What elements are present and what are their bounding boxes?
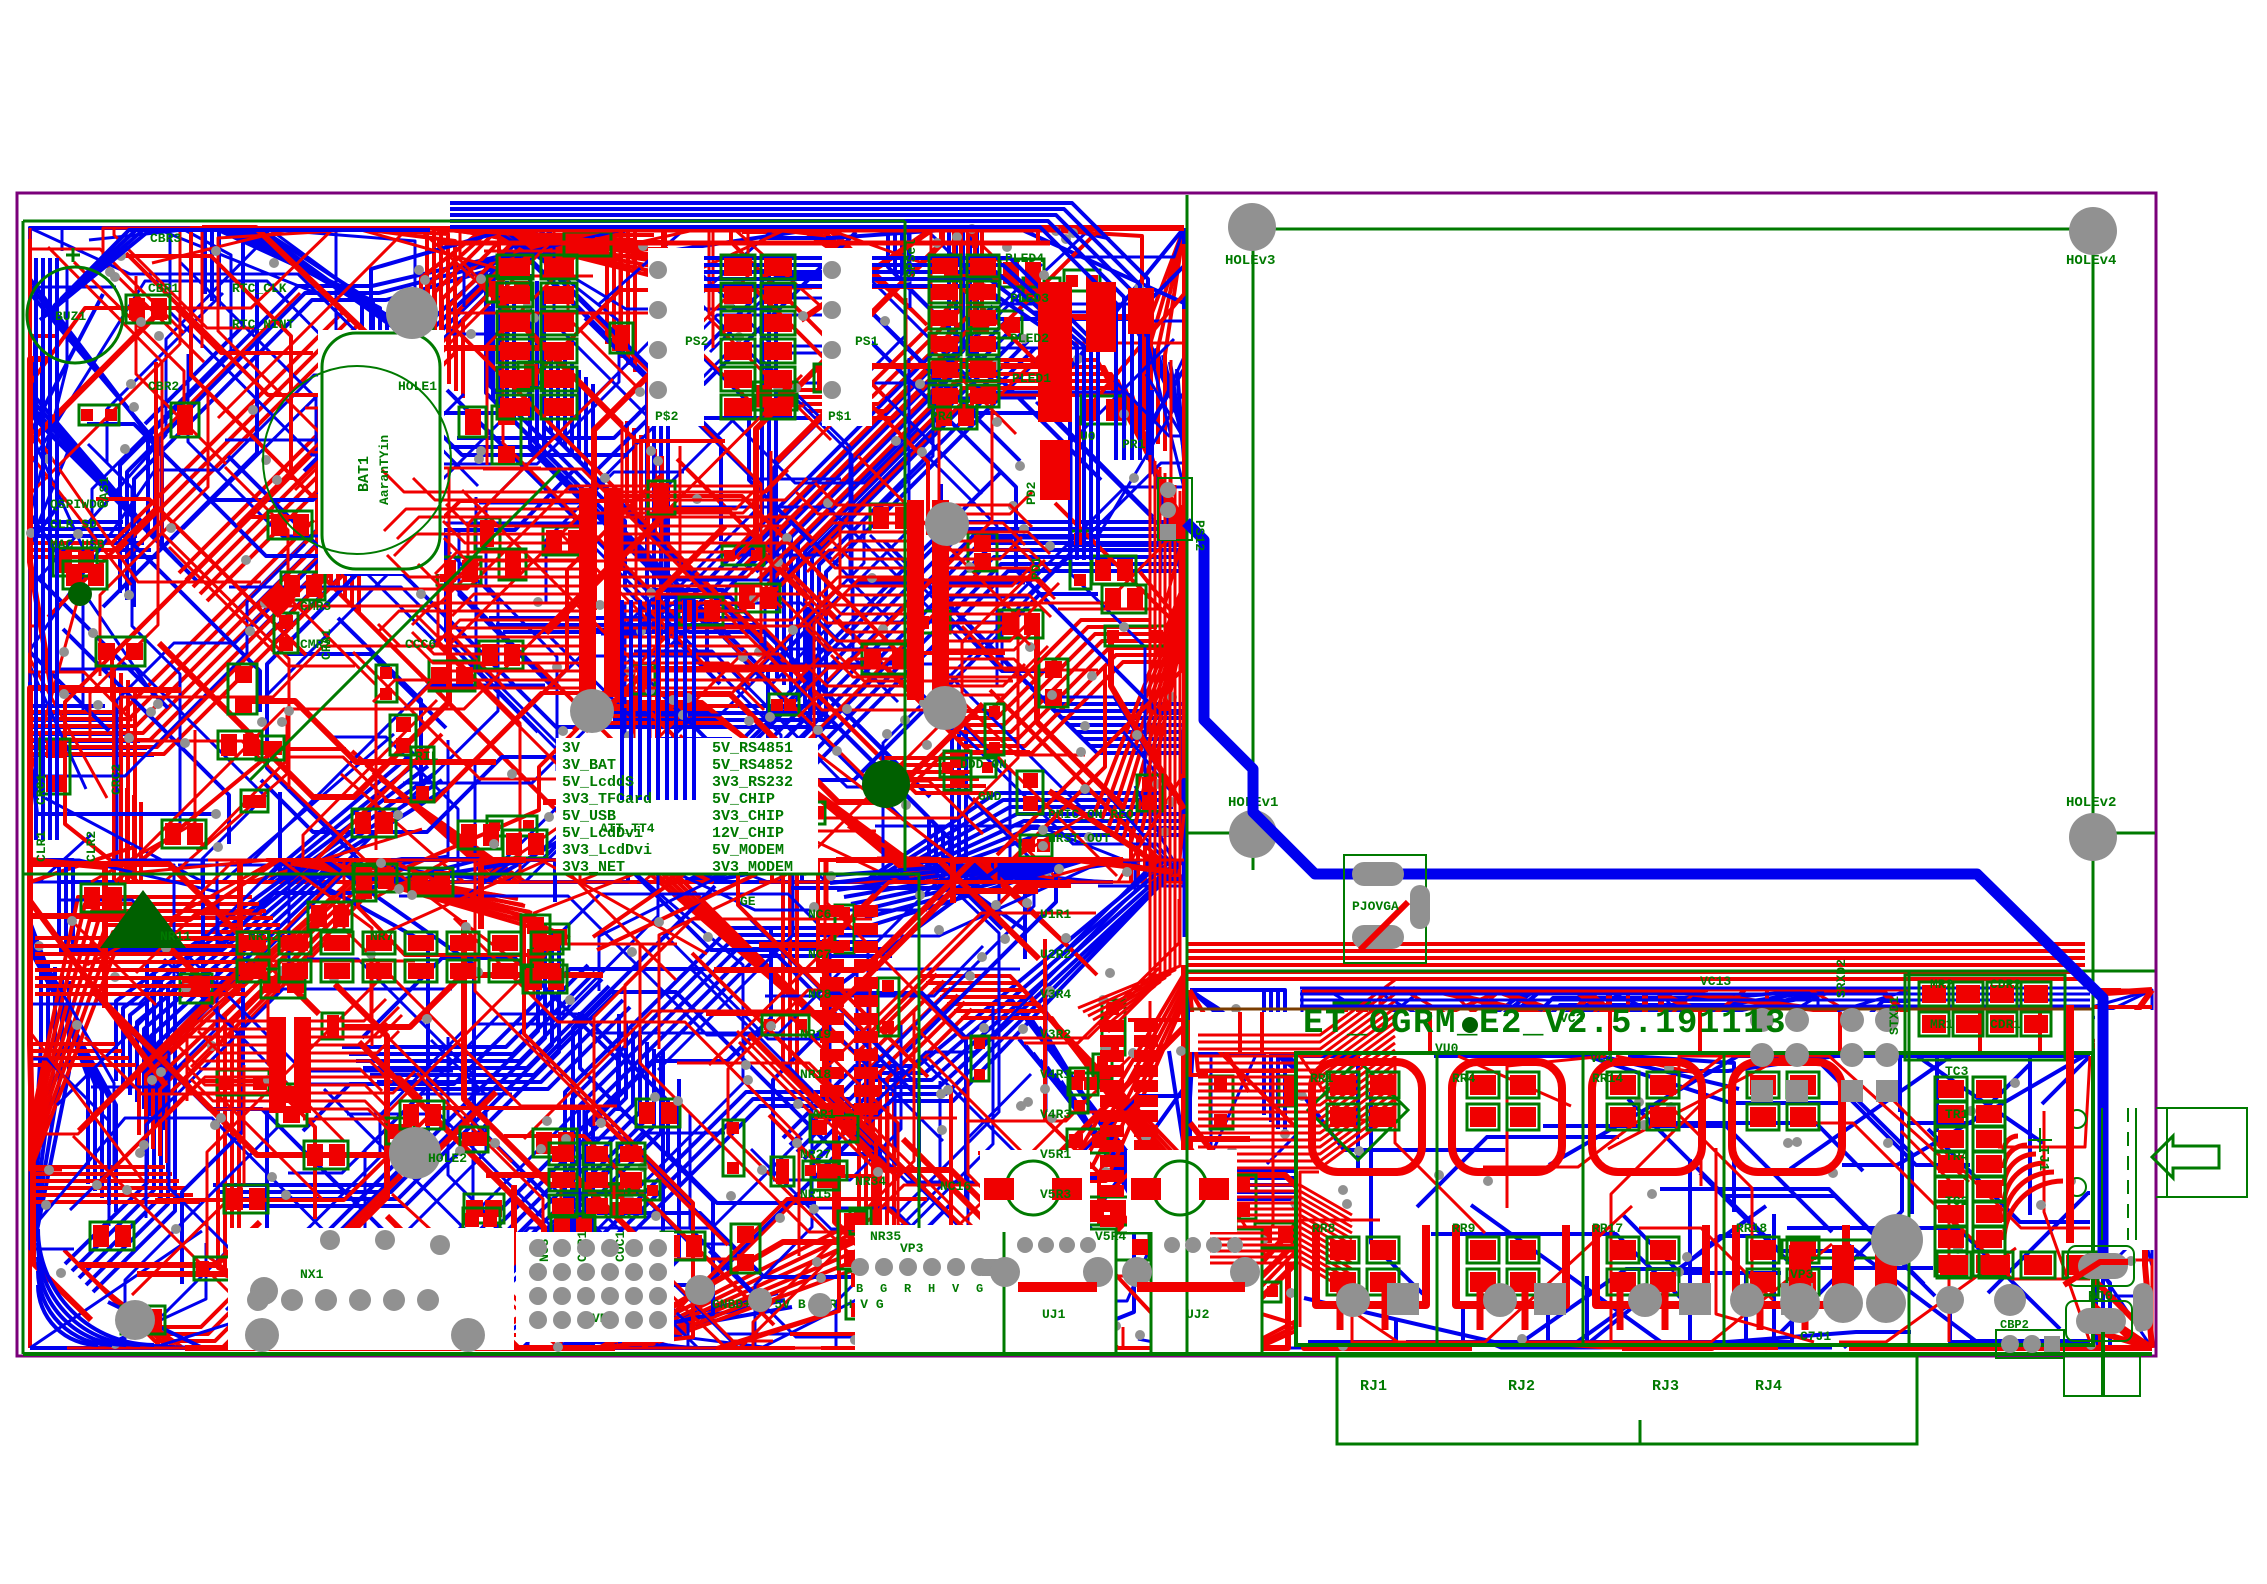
passive cluster: [437, 557, 481, 585]
passive cluster: [126, 295, 170, 323]
passive cluster: [999, 610, 1043, 638]
LED pad array PLED13-20: [721, 255, 795, 419]
wire: [298, 1174, 397, 1328]
wire: [823, 860, 1037, 876]
wire: [380, 860, 520, 965]
wire: [487, 228, 577, 465]
wire: [71, 1239, 303, 1334]
wire: [621, 988, 951, 1348]
wire: [487, 602, 625, 877]
wire: [830, 860, 1044, 883]
wire: [689, 967, 812, 1348]
wire: [409, 352, 478, 486]
component: [914, 611, 950, 633]
component: [322, 1013, 343, 1039]
wire: [1507, 1056, 1606, 1208]
wire: [830, 993, 966, 1199]
wire: [408, 1344, 662, 1348]
svg-text:RJ1: RJ1: [1360, 1378, 1387, 1395]
wire: [760, 358, 1005, 622]
wire: [1483, 1056, 1723, 1167]
wire: [1079, 244, 1184, 538]
wire: [579, 1343, 657, 1348]
component: [274, 613, 298, 653]
svg-text:NR35: NR35: [870, 1229, 901, 1244]
wire: [782, 456, 1018, 818]
wire: [164, 959, 397, 1084]
wire: [30, 925, 280, 1157]
RJ module internal routing: [1297, 1056, 2093, 1344]
wire: [503, 228, 654, 634]
green via small: [1462, 1017, 1478, 1033]
wire: [359, 860, 531, 879]
wire: [464, 228, 630, 307]
wire: [183, 228, 336, 529]
wire: [1182, 353, 1186, 466]
wire: [573, 886, 715, 1277]
wire: [303, 969, 709, 1131]
wire: [30, 1174, 172, 1348]
component: [1334, 1003, 1370, 1024]
wire: [234, 939, 559, 1206]
wire: [1415, 1008, 1718, 1141]
component: [518, 362, 543, 388]
component: [985, 1253, 1012, 1284]
wire: [373, 772, 632, 882]
wire: [1998, 1170, 2082, 1348]
wire: [349, 972, 595, 1054]
wire: [1753, 1121, 2077, 1310]
wire: [295, 860, 617, 926]
battery BAT1 outline: [263, 333, 451, 569]
wire: [997, 697, 1138, 882]
wire: [565, 860, 743, 1262]
wire: [225, 334, 510, 440]
svg-text:3V3_MODEM: 3V3_MODEM: [712, 859, 793, 876]
wire: [910, 228, 1143, 308]
wire: [885, 814, 1180, 882]
wire: [418, 228, 811, 626]
wire: [1122, 786, 1184, 882]
wire: [589, 228, 950, 478]
wire: [30, 682, 213, 814]
wire: [684, 848, 970, 882]
wire: [362, 869, 820, 882]
wire: [1928, 1129, 2090, 1222]
svg-text:RR8: RR8: [1312, 1221, 1336, 1236]
wire: [1616, 1056, 1701, 1186]
wire: [1123, 320, 1184, 840]
wire: [1024, 899, 1179, 1043]
wire: [123, 860, 315, 1088]
wire: [931, 228, 1118, 434]
svg-text:PLED4: PLED4: [1005, 251, 1044, 266]
svg-text:TJ1: TJ1: [2035, 1146, 2051, 1171]
svg-text:NR34: NR34: [855, 1174, 886, 1189]
svg-text:MAC_USB: MAC_USB: [50, 537, 105, 552]
wire: [848, 665, 1105, 882]
wire: [719, 501, 1184, 753]
passive cluster: [458, 821, 502, 849]
wire: [503, 283, 776, 632]
wire: [819, 348, 1035, 720]
wire: [1702, 1042, 1860, 1303]
wire: [164, 712, 287, 882]
wire: [632, 228, 993, 288]
wire: [87, 860, 638, 965]
wire: [1337, 990, 1701, 1087]
wire: [1267, 1068, 1433, 1164]
wire: [737, 522, 864, 691]
component: [1017, 771, 1043, 814]
wire: [193, 228, 441, 587]
wire: [499, 228, 658, 285]
red wire bundle entering bottom-right block: [1187, 942, 2085, 946]
wire: [127, 228, 628, 600]
wire: [268, 985, 345, 1142]
wire: [888, 1112, 1139, 1348]
wire: [1623, 1215, 1781, 1273]
wire: [1649, 1347, 1757, 1348]
wire: [491, 228, 773, 309]
wire: [1190, 1053, 1264, 1107]
wire: [384, 476, 660, 801]
wire: [1451, 1195, 1802, 1283]
wire: [486, 1035, 640, 1266]
wire: [669, 323, 829, 560]
svg-text:CDR1: CDR1: [1990, 1017, 2021, 1032]
svg-text:CCC6: CCC6: [405, 637, 436, 652]
mounting hole HOLEv2: [2069, 813, 2117, 861]
wire: [729, 521, 840, 696]
wire: [1594, 1179, 1712, 1348]
gray via grid VDM: [529, 1239, 667, 1329]
wire: [30, 1181, 179, 1348]
wire: [482, 425, 923, 790]
wire: [836, 1006, 993, 1348]
wire: [966, 717, 1113, 882]
wire: [738, 860, 864, 1031]
wire: [257, 767, 633, 882]
wire: [1787, 1056, 1969, 1182]
wire: [634, 651, 902, 787]
wire: [1308, 1319, 1396, 1342]
wire: [773, 1014, 838, 1178]
wire: [2070, 1260, 2152, 1348]
wire: [777, 366, 1038, 461]
component: [1477, 1118, 1515, 1143]
wire: [479, 1028, 633, 1259]
wire: [1169, 994, 1184, 1148]
wire: [228, 228, 387, 622]
wire: [74, 262, 184, 426]
wire: [1068, 1088, 1184, 1288]
svg-text:5V_MODEM: 5V_MODEM: [712, 842, 784, 859]
component: [2083, 1050, 2113, 1078]
red trace to PJ0: [2064, 1262, 2128, 1285]
wire: [1025, 1013, 1184, 1348]
wire: [1163, 332, 1184, 445]
wire: [146, 860, 854, 1142]
wire: [376, 880, 834, 884]
wire: [207, 975, 384, 1348]
wire: [1677, 1274, 1746, 1342]
connector P1 red bars: [1038, 282, 1072, 422]
wire: [1744, 1008, 1994, 1154]
connector P$1 pads: [823, 261, 841, 399]
component: [1102, 1000, 1125, 1055]
wire: [787, 571, 1184, 793]
wire: [380, 779, 639, 882]
white clearance areas: [318, 330, 444, 574]
wire: [837, 860, 1051, 890]
wire: [1773, 1236, 1961, 1348]
svg-text:5V_LcddS: 5V_LcddS: [562, 774, 634, 791]
wire: [335, 228, 659, 434]
wire: [920, 1057, 1094, 1276]
wire: [1578, 1198, 1946, 1348]
wire: [30, 1334, 354, 1348]
wire: [146, 989, 452, 1218]
wire: [1073, 228, 1184, 257]
wire: [818, 860, 1184, 1173]
wire: [790, 1086, 951, 1334]
wire: [625, 919, 872, 1048]
wire: [1642, 1340, 1750, 1348]
svg-text:GE: GE: [740, 894, 756, 909]
wire: [275, 766, 624, 882]
wire: [108, 1302, 203, 1348]
wire: [295, 740, 448, 882]
wire: [239, 940, 415, 1348]
wire: [1653, 1035, 1826, 1256]
svg-text:RJ4: RJ4: [1755, 1378, 1782, 1395]
component: [610, 323, 633, 353]
svg-text:DDD ON: DDD ON: [960, 757, 1007, 772]
wire: [1190, 1009, 1292, 1194]
wire: [128, 680, 376, 882]
wire: [402, 1245, 459, 1348]
wire: [609, 1235, 915, 1348]
wire: [546, 472, 684, 603]
wire: [449, 447, 707, 666]
component: [728, 802, 757, 837]
wire: [599, 860, 818, 991]
wire: [1935, 1139, 2152, 1348]
wire: [675, 473, 1000, 866]
wire: [480, 284, 725, 441]
wire: [1006, 1002, 1184, 1181]
wire: [295, 313, 804, 490]
wire: [524, 1011, 794, 1139]
wire: [500, 274, 742, 649]
UC02 can capacitor: [1127, 1150, 1237, 1232]
wire: [888, 1106, 1045, 1348]
wire: [1585, 990, 2114, 1059]
component: [261, 969, 305, 998]
wire: [321, 860, 539, 920]
wire: [487, 594, 1098, 882]
wire: [282, 773, 631, 882]
wire: [1999, 1220, 2141, 1348]
passive cluster: [533, 1129, 577, 1157]
wire: [712, 494, 1184, 746]
wire: [1253, 1020, 1400, 1093]
wire: [1158, 228, 1184, 444]
wire: [1558, 1085, 1780, 1176]
wire: [155, 1108, 728, 1245]
wire: [1156, 325, 1184, 438]
wire: [663, 933, 833, 1039]
wire: [787, 228, 1075, 390]
svg-text:12V_CHIP: 12V_CHIP: [712, 825, 784, 842]
insertion arrow: [2152, 1136, 2219, 1178]
wire: [463, 256, 675, 398]
wire: [1292, 1126, 1540, 1206]
wire: [486, 333, 658, 771]
wire: [1190, 990, 1538, 1227]
component: [228, 664, 257, 714]
wire: [790, 1016, 1106, 1309]
wire: [90, 860, 279, 920]
svg-text:NR7: NR7: [370, 929, 393, 944]
wire: [1123, 1327, 1184, 1348]
wire: [1362, 990, 1651, 1121]
wire: [659, 803, 752, 882]
red stubs crossing name band: [1240, 1012, 2040, 1052]
svg-text:NC7: NC7: [808, 947, 831, 962]
wire: [121, 673, 369, 882]
wire: [449, 468, 505, 688]
wire: [926, 229, 1184, 607]
wire: [381, 1260, 540, 1348]
wire: [383, 880, 841, 884]
wire: [256, 228, 415, 650]
wire: [749, 228, 963, 565]
wire: [1465, 1338, 1702, 1348]
wire: [1634, 990, 1991, 1132]
wire: [978, 1096, 1184, 1344]
wire: [544, 335, 736, 618]
wire: [276, 860, 428, 1261]
wire: [756, 228, 942, 599]
wire: [373, 706, 738, 882]
wire: [489, 269, 762, 618]
wire: [1620, 990, 1977, 1118]
wire: [30, 1029, 74, 1249]
wire: [1033, 1053, 1184, 1253]
gray pad row bottom left: [245, 1289, 485, 1352]
wire: [30, 916, 156, 1005]
wire: [30, 294, 112, 713]
wire: [229, 587, 578, 764]
wire: [745, 529, 1174, 751]
component: [460, 1127, 488, 1152]
wire: [717, 1314, 826, 1348]
wire: [1917, 1056, 2043, 1143]
wire: [875, 811, 1184, 882]
wire: [485, 228, 673, 258]
wire: [1539, 1045, 1719, 1157]
wire: [725, 638, 983, 834]
wire: [643, 1196, 800, 1259]
component: [771, 1157, 794, 1186]
wire: [57, 860, 174, 1105]
svg-text:NR11: NR11: [160, 929, 191, 944]
wire: [1753, 1097, 2068, 1182]
component: [492, 406, 521, 464]
wire: [30, 544, 305, 776]
wire: [605, 228, 861, 393]
wire: [137, 1175, 401, 1274]
passive cluster: [1574, 1090, 1618, 1118]
UJ1 connector outline: [1004, 1229, 1116, 1354]
wire: [1033, 965, 1184, 1180]
svg-text:SRXD2: SRXD2: [1834, 959, 1849, 998]
wire: [448, 1037, 557, 1285]
wire: [1948, 1289, 2062, 1348]
wire: [1190, 990, 1384, 1052]
wire: [566, 1244, 1026, 1348]
wire: [30, 228, 151, 550]
svg-text:PD1: PD1: [1029, 556, 1044, 580]
svg-text:VC13: VC13: [1700, 974, 1731, 989]
wire: [125, 1125, 280, 1348]
svg-text:P$2: P$2: [655, 409, 679, 424]
svg-text:ET_OGRM_E2_V2.5.191113: ET_OGRM_E2_V2.5.191113: [1303, 1005, 1787, 1043]
wire: [628, 660, 802, 882]
wire: [300, 860, 518, 899]
red diamond: [260, 582, 296, 618]
wire: [30, 327, 356, 557]
svg-text:GNBD+ L 5V B G R H V G: GNBD+ L 5V B G R H V G: [712, 1297, 884, 1312]
wire: [593, 956, 892, 1348]
wire: [967, 795, 1048, 882]
wire: [906, 860, 1112, 1052]
wire: [1300, 1172, 1319, 1258]
wire: [580, 1012, 816, 1203]
component: [835, 905, 854, 953]
wire: [1950, 1296, 2090, 1342]
wire: [997, 501, 1184, 855]
wire: [92, 228, 231, 566]
wire: [811, 1209, 1052, 1348]
passive cluster: [63, 561, 107, 589]
svg-text:VU0: VU0: [1435, 1041, 1459, 1056]
vias: [26, 224, 1177, 876]
passive cluster: [304, 1141, 348, 1169]
wire: [258, 1099, 584, 1348]
svg-text:G: G: [976, 1282, 983, 1296]
wire: [482, 1049, 663, 1348]
wire: [892, 821, 1184, 882]
wire: [1190, 990, 1338, 1178]
wire: [1739, 1107, 2063, 1296]
wire: [1842, 1056, 2084, 1165]
wire: [317, 1040, 486, 1348]
mount line right: [2093, 832, 2155, 835]
wire: [352, 751, 611, 882]
component: [944, 751, 971, 790]
wire: [1763, 1049, 2047, 1252]
wire: [744, 367, 1184, 566]
wire: [452, 326, 1005, 653]
wire: [344, 860, 617, 1106]
LCD outline left: [1252, 229, 1255, 870]
wire: [462, 490, 634, 882]
wire: [1102, 299, 1184, 819]
svg-text:PJ0: PJ0: [2088, 1289, 2113, 1305]
